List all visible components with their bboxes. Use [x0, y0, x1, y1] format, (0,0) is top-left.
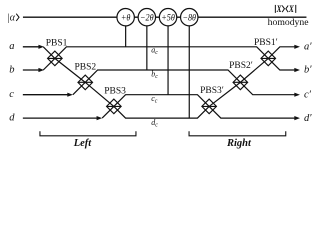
- svg-text:a: a: [9, 41, 14, 52]
- svg-text:c′: c′: [304, 89, 312, 100]
- svg-text:b: b: [9, 64, 14, 75]
- svg-text:a′: a′: [304, 42, 312, 53]
- svg-text:homodyne: homodyne: [268, 17, 309, 28]
- svg-text:PBS3′: PBS3′: [200, 86, 224, 96]
- svg-text:d: d: [9, 112, 15, 123]
- svg-text:−8θ: −8θ: [182, 12, 196, 23]
- svg-text:X: X: [288, 3, 294, 14]
- svg-text:PBS1: PBS1: [46, 39, 68, 49]
- svg-text:PBS3: PBS3: [104, 87, 126, 97]
- svg-text:|α: |α: [7, 13, 16, 24]
- svg-text:Left: Left: [73, 138, 93, 149]
- svg-text:−2θ: −2θ: [140, 12, 154, 23]
- svg-text:PBS2: PBS2: [75, 62, 97, 72]
- svg-text:Right: Right: [226, 138, 252, 149]
- svg-text:d′: d′: [304, 113, 312, 124]
- svg-text:c: c: [9, 89, 14, 100]
- svg-text:X: X: [276, 3, 282, 14]
- svg-text:+5θ: +5θ: [161, 12, 175, 23]
- svg-text:PBS1′: PBS1′: [254, 38, 278, 48]
- svg-text:b′: b′: [304, 65, 312, 76]
- svg-text:PBS2′: PBS2′: [229, 61, 253, 71]
- svg-text:+θ: +θ: [121, 12, 131, 23]
